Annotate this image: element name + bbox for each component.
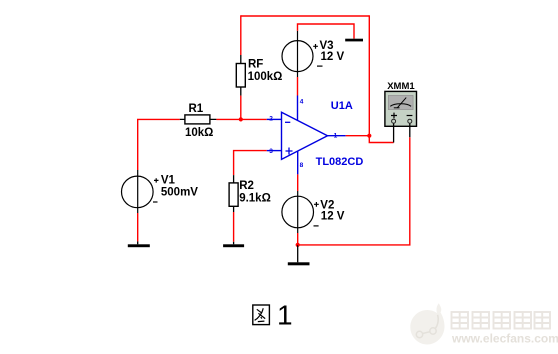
wire op-amp pin 8 to V2 (297, 174, 299, 191)
source V1 (122, 170, 199, 213)
svg-text:www.elecfans.com: www.elecfans.com (451, 332, 558, 346)
multimeter XMM1 (385, 81, 417, 143)
op-amp U1A (267, 96, 364, 175)
svg-text:10kΩ: 10kΩ (185, 127, 213, 139)
svg-text:1: 1 (334, 133, 338, 140)
wire V1 top (137, 119, 139, 170)
svg-text:1: 1 (277, 300, 293, 331)
node A junction (239, 117, 243, 121)
ground node junction (296, 243, 300, 247)
resistor RF (236, 55, 282, 96)
wire V1 top to R1 (138, 118, 180, 121)
svg-text:XMM1: XMM1 (387, 81, 415, 92)
source V3 (282, 31, 344, 77)
wire V3 top to ground (298, 24, 355, 39)
svg-text:RF: RF (248, 59, 263, 71)
svg-text:500mV: 500mV (161, 187, 198, 199)
wire top feedback loop (241, 15, 369, 135)
wire R1 to node A to op-amp inverting input (216, 118, 266, 120)
ground (V3) (345, 39, 363, 42)
svg-text:12 V: 12 V (321, 51, 345, 63)
wire V1 bottom to ground (137, 213, 139, 241)
wire R2 bottom to ground (233, 212, 235, 242)
wire bottom return to XMM1 - (298, 137, 410, 245)
wire non-inverting input from R2 (234, 150, 267, 175)
svg-text:4: 4 (300, 98, 304, 105)
resistor R2 (229, 175, 271, 212)
svg-text:U1A: U1A (331, 100, 353, 112)
wire V2 bottom to ground node (297, 233, 299, 245)
wire V3 bottom to op-amp pin 4 (297, 77, 299, 96)
ground (V1) (128, 241, 150, 247)
svg-text:100kΩ: 100kΩ (248, 71, 283, 83)
wire output node to XMM1 + (369, 136, 393, 143)
svg-text:9.1kΩ: 9.1kΩ (239, 192, 271, 204)
svg-text:3: 3 (269, 148, 273, 155)
wire op-amp output to node (346, 135, 370, 137)
svg-text:8: 8 (300, 162, 304, 169)
watermark text (451, 312, 558, 346)
ground (R2) (223, 242, 244, 247)
svg-text:V1: V1 (161, 175, 176, 187)
output node junction (367, 134, 371, 138)
ground (V2) (288, 245, 310, 265)
svg-text:TL082CD: TL082CD (316, 156, 364, 168)
resistor R1 (180, 103, 217, 139)
svg-text:2: 2 (269, 116, 273, 123)
caption 图 1 (253, 300, 293, 331)
svg-text:R2: R2 (239, 180, 254, 192)
watermark logo (410, 303, 444, 344)
svg-text:12 V: 12 V (321, 211, 345, 223)
svg-text:R1: R1 (189, 103, 204, 115)
source V2 (282, 191, 345, 233)
wire RF bottom to node A (240, 96, 242, 121)
